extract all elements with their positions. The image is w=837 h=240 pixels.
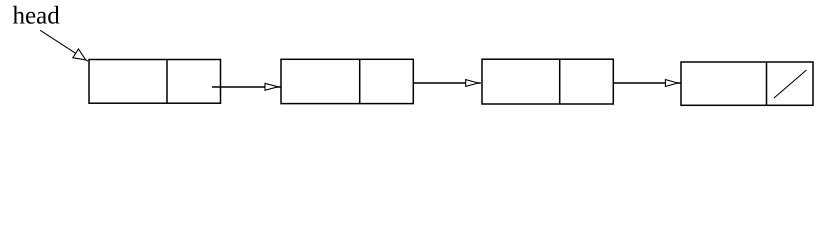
arrowhead node2 bbox=[265, 83, 278, 90]
node 2 box bbox=[281, 59, 413, 103]
wire node3 to node4 shaft bbox=[613, 82, 680, 84]
node 4 box bbox=[681, 62, 813, 105]
wire node2 to node3 shaft bbox=[413, 82, 481, 84]
svg-text:head: head bbox=[13, 3, 61, 30]
wire head arrow shaft bbox=[40, 30, 88, 61]
null slash in node 4 bbox=[774, 70, 807, 98]
head arrowhead bbox=[73, 49, 86, 60]
arrowhead node3 bbox=[466, 80, 479, 87]
arrowhead node4 bbox=[665, 80, 678, 87]
node 3 box bbox=[482, 59, 613, 104]
node 1 box bbox=[89, 60, 221, 104]
wire node1 to node2 shaft bbox=[212, 86, 281, 88]
